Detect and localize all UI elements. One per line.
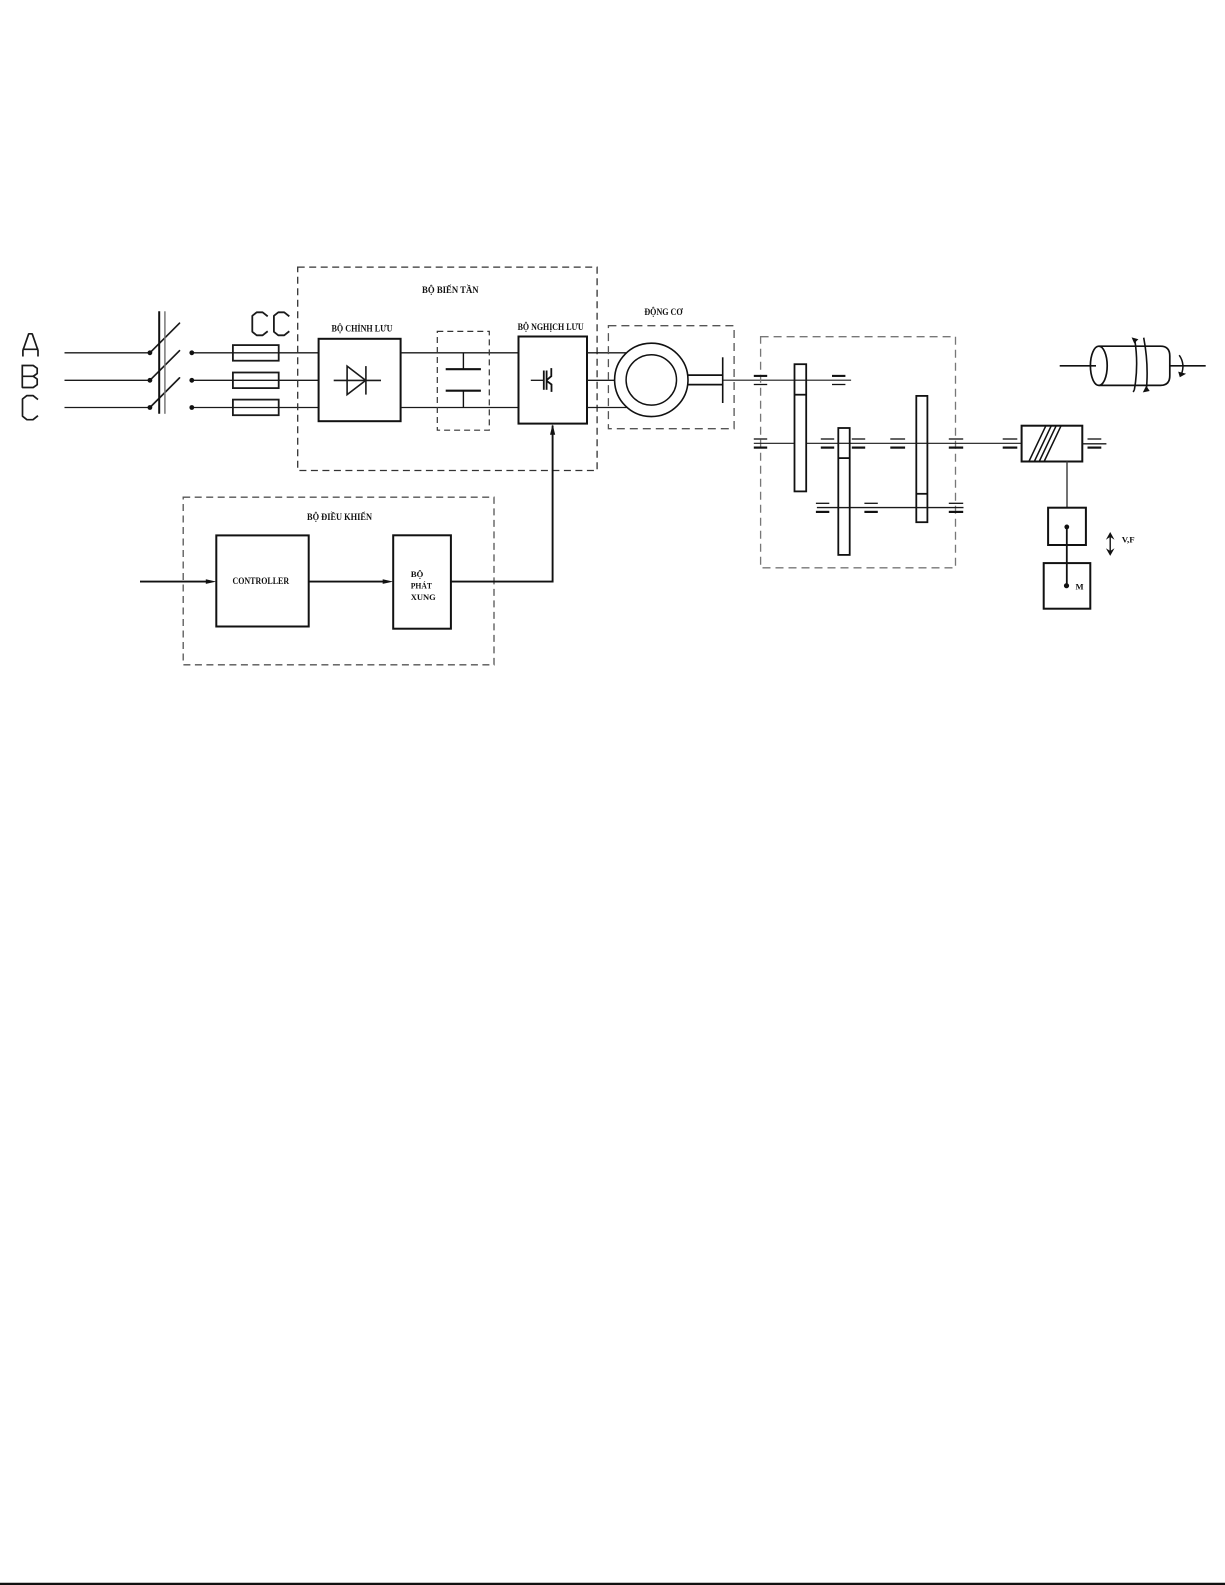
svg-text:BỘ CHỈNH LƯU: BỘ CHỈNH LƯU xyxy=(332,323,393,333)
svg-text:BỘ NGHỊCH LƯU: BỘ NGHỊCH LƯU xyxy=(518,322,584,332)
svg-text:V,F: V,F xyxy=(1122,535,1135,545)
svg-text:PHÁT: PHÁT xyxy=(411,581,432,591)
svg-text:XUNG: XUNG xyxy=(411,592,436,602)
svg-text:CONTROLLER: CONTROLLER xyxy=(233,577,290,587)
svg-text:ĐỘNG CƠ: ĐỘNG CƠ xyxy=(644,307,683,317)
svg-text:M: M xyxy=(1076,582,1084,592)
svg-text:BỘ BIẾN TẦN: BỘ BIẾN TẦN xyxy=(422,285,479,295)
svg-text:BỘ ĐIỀU KHIỂN: BỘ ĐIỀU KHIỂN xyxy=(307,512,372,522)
svg-text:BỘ: BỘ xyxy=(411,569,424,579)
